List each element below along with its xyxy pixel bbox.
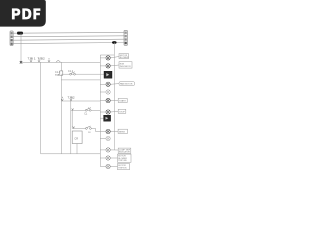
wire L3 horizontal y=101 [61,100,100,102]
label box STAR [118,98,127,102]
wire stub to L08 [100,138,106,140]
wire stub to lamp L10 [100,157,106,159]
wire V3 vertical x=61.3 [60,62,62,154]
wire stub L01 to box [110,57,119,58]
connector J1 (left) [10,31,13,46]
wire stub to lamp L02 [100,65,106,67]
wire K1 bottom down to L6 [76,144,78,154]
wire stub L07 to box [110,130,118,132]
label tag on bus line 1 [17,32,23,35]
wire stub to relay K3 [100,117,103,119]
junction tick S5 on L3 [61,97,63,101]
junction tick on L4 [72,108,74,110]
wire stub to lamp L05 [100,100,106,102]
svg-text:FAN MOTOR: FAN MOTOR [120,83,133,86]
junction tick S1 on L1 [30,58,32,62]
svg-text:TRIP IND: TRIP IND [118,160,127,162]
junction tick S6 on L3 [70,97,72,101]
wire stub L11 to box [110,165,117,167]
wire stub to lamp L09 [100,149,106,151]
label box MOTOR BLOWER TRIP IND [118,154,132,162]
wire L1 horizontal y=62.3 [21,61,100,63]
svg-text:TRIP/ON: TRIP/ON [118,168,127,170]
lamp L08 (light) [106,136,110,140]
svg-text:C1.2: C1.2 [68,70,74,73]
wire V1 vertical from junction dot down right side [113,43,115,151]
wire branch V1 to feeder at y=55 [100,54,114,56]
wire stub to lamp L01 [100,57,106,59]
wire bus line 4 [13,43,124,44]
wire L2b horizontal y=79.9 from V3 to feeder [61,79,100,81]
svg-text:START: START [119,100,126,103]
lamp L10 [106,156,110,160]
relay K3 dark box [104,115,111,121]
switch S4 contact on L2 [70,72,76,75]
wire stub L09 to box [110,149,118,151]
svg-text:18: 18 [88,132,91,134]
wire L2 horizontal y=74.2 [61,73,104,75]
svg-text:INDICATOR: INDICATOR [120,65,131,68]
svg-text:BRKR: BRKR [119,131,125,133]
wire stub to lamp L03 [100,83,106,85]
wire L6 horizontal y=153.8 [41,153,101,155]
wire stub L06 to box [110,110,118,113]
svg-text:17: 17 [88,108,91,110]
PDF badge [0,0,46,27]
fuse arc on L1 [56,61,61,63]
wire vertical from bus line 1 at x=21 [20,33,22,62]
svg-text:BLOWER: BLOWER [120,57,129,59]
connector J2 (right) [124,30,128,45]
svg-text:T0B: T0B [55,74,60,77]
label box RUN INDICATOR [119,62,132,68]
lamp L07 [106,129,110,133]
node junction dot on bus line 4 [112,41,117,44]
wire stub to lamp L06 [100,111,106,113]
label box COMP TRIP INDICATOR [118,148,131,154]
wire stub L03 to box [110,83,119,86]
lamp L03 [106,82,110,86]
lamp L06 [106,110,110,114]
lamp L11 [106,164,110,168]
label box MOTOR TRIP/ON [118,164,130,170]
node X junction at (21,62.3) [20,61,22,63]
wire A from L3 down then L4 horizontal y=110.3 [71,101,101,154]
wire stub to lamp L11 [100,166,106,168]
svg-text:CR: CR [74,137,78,141]
junction tick S2 on L1 [38,58,40,62]
svg-text:TJB 1: TJB 1 [28,57,36,61]
wire stub to L04 [100,91,106,93]
wire B from L4 down to contact row y=128.4 [72,110,85,128]
wire from CA switch to lamp L07 [91,128,106,131]
wire stub L02 to box [110,64,119,67]
svg-text:STOP: STOP [119,111,125,113]
wire bus line 3 [13,39,124,40]
lamp L01 [106,56,110,60]
wire stub L05 to box [110,99,118,101]
lamp L09 [106,148,110,152]
svg-text:INDICATOR: INDICATOR [119,151,130,154]
lamp L04 (light) [106,90,110,94]
lamp L05 [106,98,110,102]
label box FAN MOTOR [119,82,135,86]
junction tick on row [73,127,75,129]
svg-text:TJB2: TJB2 [38,57,46,61]
switch S8 contact CA [86,126,92,129]
label box MOTOR BLOWER [119,54,129,60]
label box BRKR [118,129,127,133]
wire bus line 1 [13,31,124,34]
wire bus line 2 [13,35,124,38]
fuse F1 on V3 with label [60,71,63,75]
switch S7 contact on L4 [85,108,91,111]
wire V2 long vertical x=40.6 [40,62,42,154]
lamp L02 [106,64,110,68]
wire stub L10 to box [110,157,117,159]
relay K2 dark box [104,71,112,78]
junction tick S3 on L1 [48,58,50,62]
svg-text:CL: CL [84,112,88,115]
wire feeder vertical x=100.3 [99,55,101,167]
relay K1 (CR box) [72,131,82,144]
label box STOP [118,109,126,113]
